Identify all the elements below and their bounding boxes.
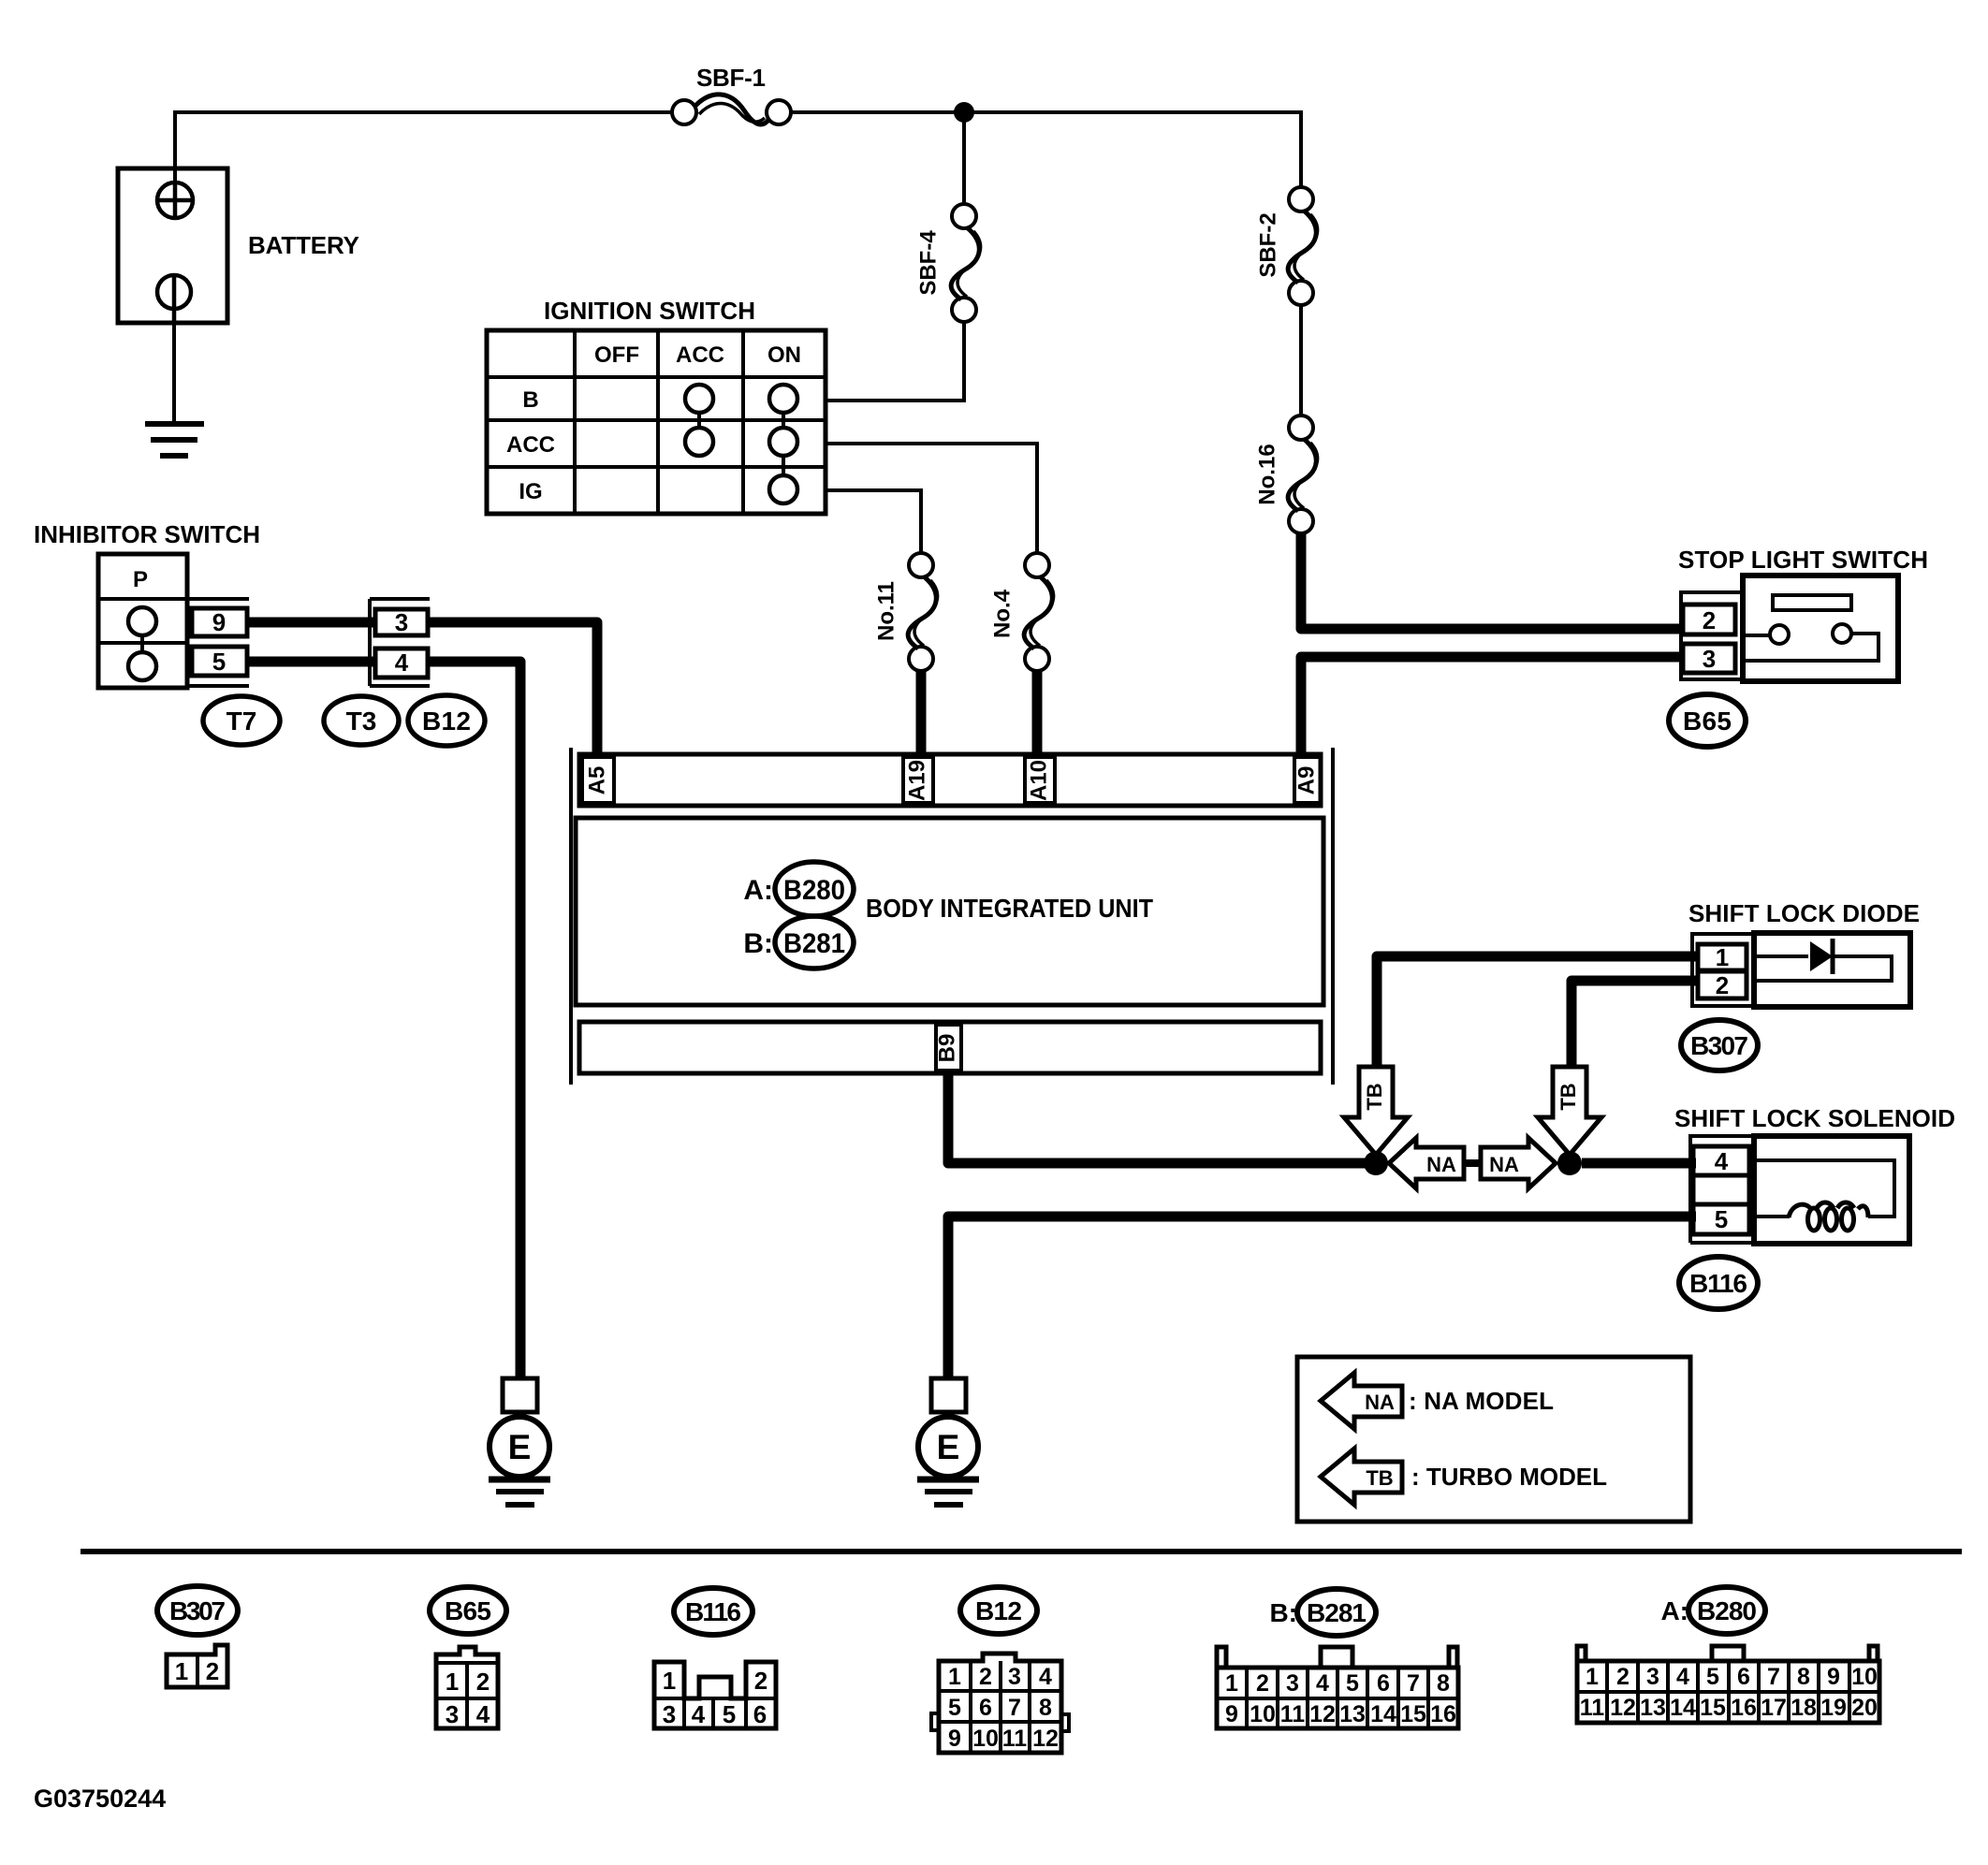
svg-text:A10: A10 xyxy=(1026,760,1051,801)
connector pinout B280 xyxy=(1577,1646,1879,1723)
svg-text:5: 5 xyxy=(212,648,226,676)
connector label T3 xyxy=(324,696,399,745)
wire solenoid pin 5 to ground E (right) xyxy=(948,1217,1696,1378)
wire fuse SBF-4 to ignition switch B xyxy=(826,322,964,401)
wire ignition ACC row to fuse No.4 xyxy=(826,444,1037,553)
svg-text:B281: B281 xyxy=(1307,1598,1367,1627)
wire fuse No.4 to pin A10 xyxy=(1032,670,1043,756)
svg-text:1: 1 xyxy=(446,1668,459,1696)
svg-text:IGNITION SWITCH: IGNITION SWITCH xyxy=(544,297,755,325)
svg-text:5: 5 xyxy=(948,1695,961,1721)
svg-text:10: 10 xyxy=(1250,1701,1276,1727)
svg-text:7: 7 xyxy=(1767,1664,1780,1690)
wire ignition IG row to fuse No.11 xyxy=(826,490,921,553)
svg-text:SBF-2: SBF-2 xyxy=(1255,212,1280,277)
shift lock solenoid SHIFT LOCK SOLENOID xyxy=(1674,1104,1955,1244)
svg-text:A19: A19 xyxy=(904,760,929,801)
svg-text:SBF-1: SBF-1 xyxy=(696,64,766,92)
TB arrow (right) xyxy=(1538,1067,1601,1155)
pin B9 xyxy=(934,1025,961,1071)
svg-text:13: 13 xyxy=(1640,1695,1666,1721)
svg-text:11: 11 xyxy=(1580,1695,1605,1721)
junction dot (left, NA/TB) xyxy=(1364,1151,1388,1175)
svg-text:TB: TB xyxy=(1363,1083,1386,1110)
wire fuse SBF-2 to fuse No.16 xyxy=(1299,305,1303,416)
connector pinout B281 xyxy=(1217,1647,1458,1728)
svg-text:ACC: ACC xyxy=(676,342,724,368)
svg-text:P: P xyxy=(133,567,148,592)
svg-text:6: 6 xyxy=(753,1700,767,1728)
connector label B:B281 (unit) xyxy=(743,916,854,969)
svg-text:A9: A9 xyxy=(1294,766,1319,795)
TB arrow (left) xyxy=(1344,1067,1408,1155)
svg-text:B280: B280 xyxy=(1697,1596,1757,1625)
svg-text:B:: B: xyxy=(1269,1598,1297,1627)
svg-text:5: 5 xyxy=(1346,1670,1359,1697)
svg-text:B: B xyxy=(522,387,538,413)
connector label B307 (pinout) xyxy=(157,1586,238,1635)
svg-text:9: 9 xyxy=(948,1726,961,1752)
svg-text:2: 2 xyxy=(1256,1670,1269,1697)
pin A10 xyxy=(1025,757,1055,803)
fuse No.16 xyxy=(1288,415,1317,533)
svg-text:12: 12 xyxy=(1309,1701,1336,1727)
svg-text:NA: NA xyxy=(1426,1153,1456,1176)
svg-text:17: 17 xyxy=(1761,1695,1787,1721)
svg-text:SHIFT LOCK SOLENOID: SHIFT LOCK SOLENOID xyxy=(1674,1104,1955,1132)
svg-text:BATTERY: BATTERY xyxy=(248,231,359,259)
svg-text:15: 15 xyxy=(1400,1701,1426,1727)
pin A5 xyxy=(582,757,614,803)
label SBF-4 (rotated) xyxy=(915,230,941,296)
svg-text:2: 2 xyxy=(1703,606,1716,634)
svg-text:A5: A5 xyxy=(584,766,609,795)
connector label B12 xyxy=(408,695,485,746)
svg-text:NA: NA xyxy=(1489,1153,1519,1176)
wire pin 3 to pin A5 xyxy=(428,622,597,756)
svg-text:9: 9 xyxy=(212,608,226,636)
svg-text:11: 11 xyxy=(1002,1726,1028,1752)
legend box xyxy=(1297,1357,1690,1522)
svg-text:STOP LIGHT SWITCH: STOP LIGHT SWITCH xyxy=(1678,546,1928,574)
svg-text:5: 5 xyxy=(1706,1664,1719,1690)
connector pinout B65 xyxy=(436,1647,498,1728)
svg-text:TB: TB xyxy=(1557,1083,1580,1110)
wire fuse No.16 to stop light switch pin 2 xyxy=(1301,532,1684,629)
svg-text:B9: B9 xyxy=(934,1034,959,1063)
connector label A:B280 (pinout) xyxy=(1660,1587,1765,1634)
label No.4 (rotated) xyxy=(989,589,1015,638)
wire fuse No.11 to pin A19 xyxy=(916,670,927,756)
svg-text:ACC: ACC xyxy=(506,432,555,458)
svg-text:1: 1 xyxy=(175,1657,188,1685)
svg-text:4: 4 xyxy=(476,1700,490,1728)
connector pinout B307 xyxy=(167,1645,227,1687)
svg-text:4: 4 xyxy=(1039,1664,1052,1690)
connector T3/B12 pins 3/4 xyxy=(370,599,430,686)
svg-text:No.4: No.4 xyxy=(989,589,1015,638)
svg-text:8: 8 xyxy=(1797,1664,1810,1690)
svg-text:No.16: No.16 xyxy=(1254,444,1279,504)
svg-text:2: 2 xyxy=(1616,1664,1630,1690)
legend text TURBO MODEL xyxy=(1411,1463,1607,1491)
wire pin B9 to NA/TB junction xyxy=(948,1073,1368,1163)
svg-text:15: 15 xyxy=(1700,1695,1726,1721)
connector label B307 (diode) xyxy=(1681,1020,1758,1071)
wire junction to fuse SBF-4 xyxy=(962,112,966,205)
svg-text:BODY INTEGRATED UNIT: BODY INTEGRATED UNIT xyxy=(866,894,1153,923)
svg-text:5: 5 xyxy=(1715,1205,1728,1233)
wire battery negative to ground xyxy=(172,323,176,424)
battery BATTERY xyxy=(118,168,359,323)
svg-text:3: 3 xyxy=(1646,1664,1659,1690)
connector label B65 (pinout) xyxy=(430,1587,506,1634)
legend NA arrow xyxy=(1321,1373,1402,1429)
ignition switch IGNITION SWITCH xyxy=(487,297,826,514)
svg-text:2: 2 xyxy=(1716,971,1729,999)
solenoid coil symbol xyxy=(1749,1160,1894,1231)
label No.11 (rotated) xyxy=(873,581,899,641)
connector label A:B280 (unit) xyxy=(743,862,854,916)
svg-text:B12: B12 xyxy=(422,707,471,736)
ground (battery) xyxy=(145,424,204,456)
NA arrow (left, pointing left) xyxy=(1389,1138,1464,1188)
connector label B:B281 (pinout) xyxy=(1269,1589,1376,1636)
svg-text:8: 8 xyxy=(1039,1695,1052,1721)
svg-text:11: 11 xyxy=(1280,1701,1306,1727)
ignition switch contact ON column xyxy=(769,385,797,503)
svg-text:3: 3 xyxy=(1703,645,1716,673)
svg-text:1: 1 xyxy=(1716,943,1729,971)
svg-text:9: 9 xyxy=(1225,1701,1238,1727)
svg-text:TB: TB xyxy=(1366,1466,1393,1490)
ignition switch contact B-ACC column xyxy=(685,385,713,456)
svg-text:6: 6 xyxy=(1737,1664,1750,1690)
fuse SBF-4 xyxy=(951,204,980,322)
svg-text:2: 2 xyxy=(206,1657,219,1685)
svg-text:IG: IG xyxy=(519,479,542,504)
svg-text:7: 7 xyxy=(1407,1670,1420,1697)
svg-text:T7: T7 xyxy=(227,707,257,736)
connector pinout B12 xyxy=(931,1654,1069,1753)
svg-text:9: 9 xyxy=(1827,1664,1840,1690)
svg-text:A:: A: xyxy=(743,875,773,906)
svg-text:13: 13 xyxy=(1339,1701,1366,1727)
svg-text:1: 1 xyxy=(1225,1670,1238,1697)
NA arrow (right, pointing right) xyxy=(1481,1138,1556,1188)
junction dot (right, NA/TB) xyxy=(1557,1151,1582,1175)
svg-text:5: 5 xyxy=(723,1700,736,1728)
svg-text:B280: B280 xyxy=(783,875,845,906)
svg-text:1: 1 xyxy=(1586,1664,1599,1690)
svg-text:1: 1 xyxy=(948,1664,961,1690)
svg-text:3: 3 xyxy=(395,608,408,636)
svg-text:T3: T3 xyxy=(346,707,377,736)
svg-text:14: 14 xyxy=(1670,1695,1696,1721)
pin A19 xyxy=(903,757,933,803)
svg-text:10: 10 xyxy=(972,1726,999,1752)
inhibitor switch INHIBITOR SWITCH xyxy=(34,520,260,688)
connector label B116 (pinout) xyxy=(674,1588,753,1635)
wire between NA arrows xyxy=(1464,1159,1481,1167)
svg-text:A:: A: xyxy=(1660,1596,1688,1625)
wire SBF-1 to corner above SBF-2 xyxy=(791,112,1301,187)
connector pinout B116 xyxy=(654,1662,776,1728)
svg-text:4: 4 xyxy=(1715,1147,1729,1175)
fuse No.11 xyxy=(908,553,937,671)
svg-text:ON: ON xyxy=(767,342,801,368)
junction dot (top feed split) xyxy=(954,102,974,123)
ground E (left) xyxy=(489,1378,550,1505)
svg-text:B:: B: xyxy=(743,928,773,959)
svg-text:4: 4 xyxy=(395,648,409,677)
connector label B65 (switch) xyxy=(1669,694,1746,747)
svg-text:6: 6 xyxy=(979,1695,992,1721)
svg-text:B12: B12 xyxy=(975,1596,1022,1625)
svg-text:4: 4 xyxy=(1676,1664,1689,1690)
svg-text:19: 19 xyxy=(1820,1695,1847,1721)
connector label T7 xyxy=(203,696,280,745)
svg-text:3: 3 xyxy=(1286,1670,1299,1697)
svg-text:4: 4 xyxy=(692,1700,706,1728)
part number G03750244 xyxy=(34,1785,166,1813)
wire stop light switch pin 3 to pin A9 xyxy=(1301,657,1684,756)
svg-text:16: 16 xyxy=(1430,1701,1456,1727)
svg-text:B116: B116 xyxy=(1689,1269,1747,1298)
separator line xyxy=(80,1549,1962,1554)
svg-text:18: 18 xyxy=(1791,1695,1817,1721)
label SBF-2 (rotated) xyxy=(1255,212,1280,277)
svg-text:2: 2 xyxy=(979,1664,992,1690)
wire shift lock diode pin 2 to TB arrow (right) xyxy=(1571,981,1696,1067)
shift lock diode SHIFT LOCK DIODE xyxy=(1688,899,1920,1007)
svg-text:7: 7 xyxy=(1008,1695,1021,1721)
svg-text:16: 16 xyxy=(1731,1695,1757,1721)
legend text NA MODEL xyxy=(1409,1387,1554,1415)
svg-text:B281: B281 xyxy=(783,928,845,959)
svg-text:: TURBO MODEL: : TURBO MODEL xyxy=(1411,1463,1607,1491)
wire inhibitor pin 9 to pin 3 xyxy=(247,618,375,628)
svg-text:B116: B116 xyxy=(685,1597,741,1626)
svg-text:2: 2 xyxy=(754,1667,767,1695)
svg-text:SHIFT LOCK DIODE: SHIFT LOCK DIODE xyxy=(1688,899,1920,927)
svg-text:No.11: No.11 xyxy=(873,581,899,641)
svg-text:10: 10 xyxy=(1851,1664,1878,1690)
fuse SBF-1 xyxy=(672,95,791,124)
svg-text:3: 3 xyxy=(663,1700,676,1728)
svg-text:B307: B307 xyxy=(169,1596,226,1625)
wire pin 4 to ground E (left) xyxy=(428,662,520,1378)
pin A9 xyxy=(1294,757,1321,803)
connector T7 pins 9/5 xyxy=(187,599,249,686)
svg-text:12: 12 xyxy=(1610,1695,1636,1721)
svg-text:NA: NA xyxy=(1365,1391,1395,1414)
label No.16 (rotated) xyxy=(1254,444,1279,504)
fuse SBF-2 xyxy=(1288,187,1317,305)
svg-text:2: 2 xyxy=(476,1668,490,1696)
svg-text:OFF: OFF xyxy=(594,342,639,368)
svg-text:E: E xyxy=(508,1428,532,1466)
svg-text:12: 12 xyxy=(1032,1726,1059,1752)
wire junction (right) to solenoid pin 4 xyxy=(1582,1158,1696,1169)
svg-text:14: 14 xyxy=(1370,1701,1396,1727)
label SBF-1 xyxy=(696,64,766,92)
svg-text:G03750244: G03750244 xyxy=(34,1785,166,1813)
fuse No.4 xyxy=(1024,553,1053,671)
svg-text:B65: B65 xyxy=(445,1596,491,1625)
svg-text:8: 8 xyxy=(1437,1670,1450,1697)
svg-text:B307: B307 xyxy=(1690,1031,1748,1060)
legend TB arrow xyxy=(1321,1449,1402,1505)
wire shift lock diode pin 1 to TB arrow (left) xyxy=(1377,956,1696,1067)
wire battery positive to SBF-1 (top feed) xyxy=(175,112,673,183)
svg-text:SBF-4: SBF-4 xyxy=(915,230,941,296)
svg-text:B65: B65 xyxy=(1683,707,1732,736)
svg-text:20: 20 xyxy=(1851,1695,1878,1721)
svg-text:INHIBITOR SWITCH: INHIBITOR SWITCH xyxy=(34,520,260,548)
wire inhibitor pin 5 to pin 4 xyxy=(247,657,375,667)
svg-text:3: 3 xyxy=(1008,1664,1021,1690)
body integrated unit BODY INTEGRATED UNIT xyxy=(571,748,1333,1085)
svg-text:: NA MODEL: : NA MODEL xyxy=(1409,1387,1554,1415)
svg-text:6: 6 xyxy=(1377,1670,1390,1697)
connector label B12 (pinout) xyxy=(960,1587,1037,1634)
svg-text:E: E xyxy=(937,1428,960,1466)
diode symbol (shift lock diode) xyxy=(1757,939,1892,981)
connector label B116 (solenoid) xyxy=(1679,1257,1758,1309)
svg-text:1: 1 xyxy=(663,1667,676,1695)
svg-text:4: 4 xyxy=(1316,1670,1329,1697)
svg-text:3: 3 xyxy=(446,1700,459,1728)
stop light switch STOP LIGHT SWITCH xyxy=(1678,546,1928,681)
ground E (right) xyxy=(917,1378,979,1505)
